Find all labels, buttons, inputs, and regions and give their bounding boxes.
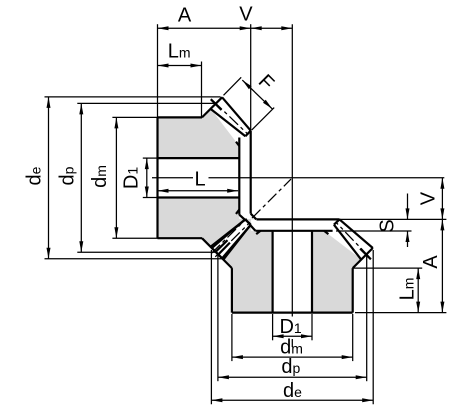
svg-text:D1: D1 — [121, 167, 143, 189]
svg-text:V: V — [239, 4, 253, 26]
svg-text:D1: D1 — [279, 316, 301, 338]
svg-text:S: S — [377, 219, 399, 232]
svg-text:de: de — [24, 166, 46, 185]
svg-text:A: A — [420, 255, 442, 269]
svg-text:dp: dp — [57, 166, 79, 185]
svg-text:Lm: Lm — [168, 41, 191, 63]
svg-text:dp: dp — [281, 356, 300, 378]
svg-text:L: L — [194, 169, 205, 191]
svg-text:de: de — [283, 380, 302, 402]
svg-text:dm: dm — [89, 165, 111, 188]
svg-text:Lm: Lm — [397, 278, 419, 301]
svg-text:V: V — [418, 191, 440, 205]
svg-text:A: A — [178, 5, 192, 27]
